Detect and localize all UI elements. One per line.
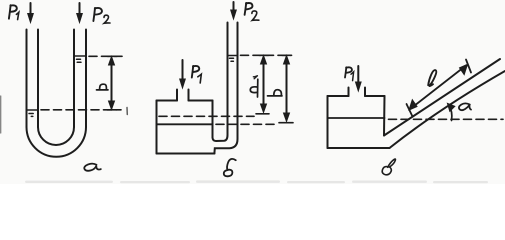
tick at h dim top	[108, 55, 118, 57]
tick at h dim top (middle)	[282, 54, 292, 56]
h1 label (rotated)	[250, 76, 258, 97]
dimension line l along tube	[407, 60, 472, 117]
dimension line h1	[256, 56, 269, 114]
tank right wall	[212, 101, 214, 138]
P2 label	[93, 8, 110, 23]
tank top left segment	[157, 100, 178, 102]
tick at h1 dim top	[259, 54, 269, 56]
dashed level at tube	[241, 54, 292, 56]
dashed level through tank	[159, 115, 254, 117]
U-tube bend outer	[27, 127, 87, 157]
tank stub right (right diagram)	[364, 88, 366, 97]
dimension line h	[109, 57, 115, 110]
stray scan mark x127	[126, 108, 128, 115]
meniscus hatch in tube	[230, 58, 234, 61]
tank bottom	[157, 153, 215, 155]
dashed datum right of tank	[216, 123, 278, 125]
liquid level in tube	[228, 55, 238, 57]
l script label	[428, 70, 436, 86]
dimension line h	[279, 56, 293, 123]
P1 label	[9, 5, 19, 19]
U-tube bend inner	[38, 127, 74, 145]
P1 label (middle)	[192, 66, 202, 83]
tank right wall (right diagram)	[383, 96, 386, 136]
tank stub left	[176, 90, 178, 101]
label v	[382, 159, 395, 175]
h label (rotated)	[268, 90, 283, 96]
U-tube right limb outer wall	[85, 30, 87, 128]
meniscus hatch right limb	[77, 59, 82, 62]
U-tube left limb outer wall	[26, 30, 28, 128]
label a	[84, 164, 101, 171]
stray scan mark left edge	[0, 96, 2, 133]
piezometer tube left wall	[213, 23, 228, 142]
P2 label (middle)	[245, 3, 259, 20]
liquid surface in tank (solid)	[157, 123, 213, 125]
P1 arrow (right)	[356, 66, 362, 91]
tank top segments (right diagram)	[328, 95, 385, 97]
P2 arrow	[77, 3, 83, 23]
tank bottom (right diagram)	[328, 147, 390, 149]
dashed datum line (right diagram)	[389, 118, 504, 120]
inclined tube lower wall	[390, 71, 505, 148]
label b	[224, 159, 236, 176]
alpha angle arc	[447, 103, 454, 120]
h label (rotated)	[97, 84, 109, 90]
P1 label (right)	[345, 67, 354, 80]
tick at h dim bottom	[107, 109, 117, 111]
tank stub left (right diagram)	[348, 88, 350, 97]
piezometer tube right wall	[214, 23, 237, 154]
faint scanner band at bottom	[25, 180, 488, 183]
P2 arrow (middle)	[231, 2, 237, 19]
tank left wall (right diagram)	[327, 96, 329, 148]
U-tube right limb inner wall	[73, 30, 75, 128]
U-tube left limb inner wall	[37, 30, 39, 128]
meniscus hatch left limb	[29, 114, 33, 117]
alpha label	[459, 103, 471, 110]
liquid level right limb	[74, 55, 86, 57]
liquid level left limb	[27, 109, 39, 111]
P1 arrow	[28, 3, 34, 23]
tank left wall	[156, 101, 158, 154]
tank stub right	[188, 90, 190, 101]
liquid surface in tank (right diagram)	[328, 117, 385, 119]
tank top right segment	[189, 100, 213, 102]
dashed level line upper	[89, 55, 122, 57]
P1 arrow (middle)	[180, 60, 186, 88]
dashed level line lower	[41, 109, 121, 111]
inclined tube upper wall	[384, 59, 500, 136]
